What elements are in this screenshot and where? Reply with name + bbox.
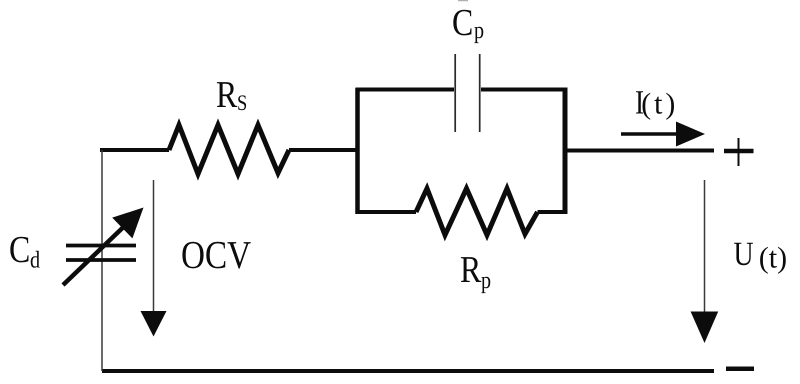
wire: box top edge left part xyxy=(356,88,455,92)
capacitor Cd variable arrow xyxy=(63,208,144,286)
OCV arrow xyxy=(141,180,167,337)
node box: right edge of parallel RC xyxy=(563,88,568,215)
label Cd xyxy=(10,237,40,268)
label U(t) xyxy=(734,243,786,274)
wire: Rs to parallel box xyxy=(289,148,356,152)
wire: box top edge right part xyxy=(481,88,567,92)
capacitor Cd plates xyxy=(66,246,136,261)
wire: box bottom edge left part xyxy=(356,210,417,214)
resistor Rs zigzag xyxy=(169,125,289,174)
plus terminal xyxy=(724,138,754,166)
resistor Rp zigzag xyxy=(416,189,538,236)
wire: box bottom edge right part xyxy=(538,210,568,214)
left branch wire (thin vertical) xyxy=(101,150,103,371)
stray mark at top edge xyxy=(458,0,468,2)
capacitor Cp plates xyxy=(455,54,480,132)
current arrow I(t) xyxy=(621,122,705,147)
label I(t) xyxy=(636,91,674,120)
voltage arrow U(t) xyxy=(691,180,719,343)
bottom wire xyxy=(102,369,714,373)
label OCV xyxy=(182,242,250,269)
wire: top-left horizontal segment xyxy=(100,148,169,152)
node box: left edge of parallel RC xyxy=(355,88,360,214)
wire: box to plus terminal xyxy=(565,149,714,153)
label Cp xyxy=(453,10,483,43)
label Rs xyxy=(217,82,246,110)
minus terminal xyxy=(726,366,754,371)
label Rp xyxy=(461,257,490,293)
